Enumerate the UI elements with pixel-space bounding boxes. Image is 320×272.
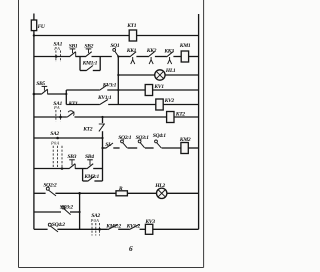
relay coil KT1	[129, 30, 136, 41]
wire: rung 3 (lamp)	[118, 74, 154, 76]
wire: rung 5 (KV2 coil)	[66, 104, 99, 106]
svg-text:KT1: KT1	[126, 23, 137, 29]
indicator lamp HL1	[155, 70, 165, 80]
svg-text:KM2:1: KM2:1	[83, 174, 99, 180]
drawing frame right border	[203, 0, 205, 268]
contactor coil KM1	[181, 51, 188, 62]
svg-text:SQ2:2: SQ2:2	[43, 183, 57, 189]
svg-text:P 0 A: P 0 A	[50, 141, 60, 146]
wire: rung 7	[34, 137, 103, 139]
svg-text:SB2: SB2	[84, 43, 93, 49]
selector SA2 contact on rung 9	[61, 167, 64, 170]
indicator lamp HL2	[157, 188, 167, 198]
svg-text:HL2: HL2	[154, 183, 165, 189]
svg-text:SQ1: SQ1	[110, 43, 120, 49]
svg-text:KM1:1: KM1:1	[82, 61, 98, 67]
wire: left bus	[33, 36, 35, 230]
svg-text:KT2: KT2	[82, 126, 93, 132]
wire: rung 8 (KM2 coil)	[103, 147, 106, 149]
wire: rung 13 (KV3 coil)	[34, 228, 48, 230]
wire: rung 10 (signal lamp)	[34, 192, 46, 194]
svg-text:SQ4:2: SQ4:2	[52, 222, 66, 228]
svg-text:P A: P A	[53, 46, 60, 51]
wire: rung 6 (KT2 coil)	[34, 116, 67, 118]
wire: right bus	[198, 14, 200, 229]
svg-text:KK2: KK2	[146, 48, 157, 54]
wire: vertical from rung 2 down to KV rungs	[117, 57, 119, 105]
relay coil KV2	[156, 99, 163, 110]
svg-text:SB4: SB4	[85, 154, 94, 160]
contact KV1:1	[99, 100, 108, 105]
svg-text:SB1: SB1	[69, 43, 78, 49]
drawing frame left border	[18, 0, 20, 268]
wire: rung 2 (start control)	[34, 56, 70, 58]
svg-text:KV3:1: KV3:1	[102, 83, 117, 89]
contactor coil KM2	[181, 143, 188, 154]
svg-text:HL1: HL1	[165, 68, 176, 74]
svg-text:SQ2:1: SQ2:1	[118, 135, 132, 141]
wire: rung 9	[34, 168, 69, 170]
svg-text:P 0 A: P 0 A	[90, 218, 100, 223]
svg-text:KV1:1: KV1:1	[97, 95, 112, 101]
svg-text:KM1: KM1	[179, 43, 191, 49]
svg-text:KV3: KV3	[144, 219, 155, 225]
svg-text:KK1: KK1	[126, 48, 137, 54]
svg-text:KV1: KV1	[153, 84, 164, 90]
wire: vertical rung10-rung12-rung13	[79, 193, 81, 229]
wire: vertical link rung6-rung7-rung8	[102, 117, 104, 123]
svg-text:KV2: KV2	[164, 98, 175, 104]
wire: top feed into fuse	[33, 14, 35, 20]
wire: rung 1	[34, 35, 199, 37]
relay coil KV3	[145, 224, 152, 234]
contact KV3:1	[99, 85, 107, 90]
drawing frame bottom border	[19, 267, 204, 269]
contact KM2:1	[88, 176, 95, 181]
svg-text:R: R	[118, 186, 123, 192]
wire: rung 4 (KV1 coil)	[66, 89, 99, 91]
svg-text:KM2: KM2	[179, 137, 191, 143]
svg-text:KT2: KT2	[175, 112, 186, 118]
contact KM1:1	[86, 66, 93, 71]
svg-text:KT1: KT1	[68, 101, 79, 107]
wire: KM1:1 holding branch	[79, 57, 81, 71]
resistor R	[116, 191, 127, 196]
wire: jog SB5 to KV rungs	[65, 90, 67, 105]
relay coil KT2	[167, 112, 174, 123]
svg-text:SA2: SA2	[50, 131, 59, 137]
wire: KM2:1 holding branch	[82, 169, 84, 182]
svg-text:SQ4:1: SQ4:1	[153, 133, 167, 139]
fuse FU	[33, 20, 35, 36]
svg-text:SB3: SB3	[67, 154, 76, 160]
relay coil KV1	[145, 85, 152, 96]
node: left bus top junction	[33, 34, 35, 36]
svg-text:P A: P A	[53, 105, 60, 110]
wire: rung 12	[34, 211, 61, 213]
svg-text:SQ3:1: SQ3:1	[136, 135, 150, 141]
